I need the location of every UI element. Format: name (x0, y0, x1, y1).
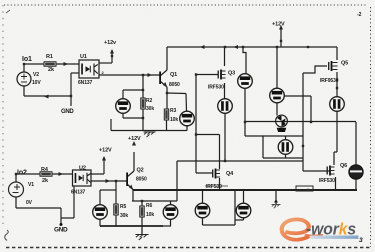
svg-text:3: 3 (359, 237, 363, 244)
